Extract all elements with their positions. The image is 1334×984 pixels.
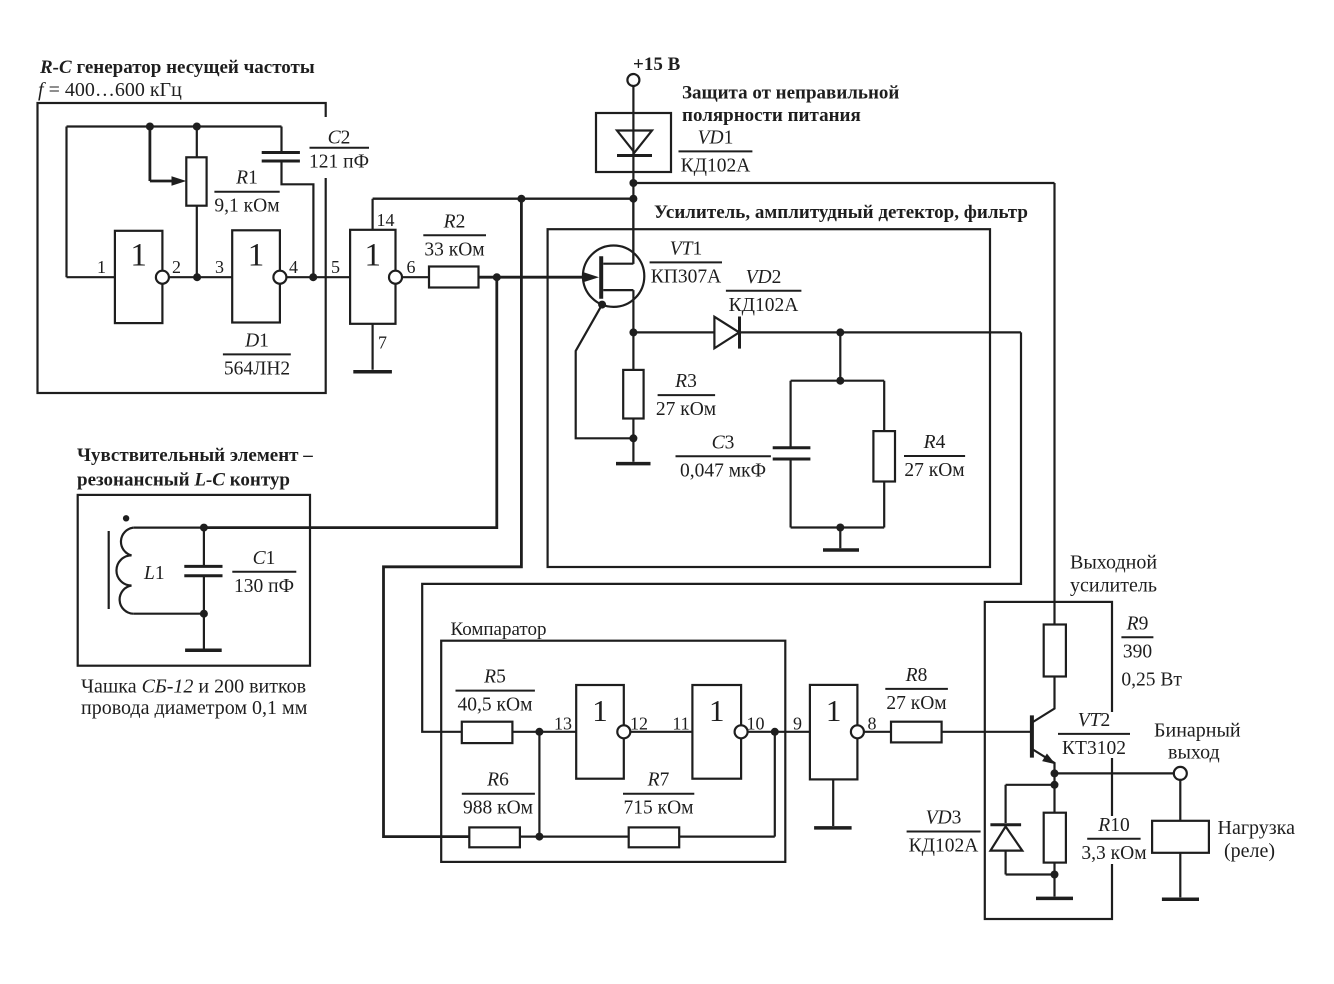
svg-text:R1: R1 xyxy=(235,168,258,189)
svg-text:полярности питания: полярности питания xyxy=(682,105,861,126)
svg-text:13: 13 xyxy=(554,714,572,734)
svg-text:715 кОм: 715 кОм xyxy=(623,798,693,819)
svg-text:Выходной: Выходной xyxy=(1070,552,1157,574)
svg-text:1: 1 xyxy=(826,693,842,728)
svg-text:R6: R6 xyxy=(486,770,509,791)
svg-text:988 кОм: 988 кОм xyxy=(463,798,533,819)
svg-text:27 кОм: 27 кОм xyxy=(656,399,716,420)
svg-text:Бинарный: Бинарный xyxy=(1154,720,1241,742)
svg-text:R4: R4 xyxy=(923,432,946,453)
svg-text:R3: R3 xyxy=(674,371,697,392)
svg-text:R10: R10 xyxy=(1097,815,1129,836)
svg-text:f = 400…600 кГц: f = 400…600 кГц xyxy=(38,79,182,101)
svg-text:33 кОм: 33 кОм xyxy=(424,239,484,260)
svg-text:C3: C3 xyxy=(712,432,735,453)
svg-text:Усилитель, амплитудный детекто: Усилитель, амплитудный детектор, фильтр xyxy=(654,202,1028,223)
svg-text:4: 4 xyxy=(289,257,298,277)
svg-text:9: 9 xyxy=(793,714,802,734)
svg-text:1: 1 xyxy=(248,238,265,274)
svg-text:R7: R7 xyxy=(647,770,670,791)
svg-text:27 кОм: 27 кОм xyxy=(904,460,964,481)
svg-text:R9: R9 xyxy=(1126,613,1149,634)
svg-text:(реле): (реле) xyxy=(1224,840,1275,862)
svg-text:11: 11 xyxy=(672,714,689,734)
svg-text:резонансный L-C контур: резонансный L-C контур xyxy=(77,470,290,491)
svg-text:Компаратор: Компаратор xyxy=(451,619,547,640)
svg-text:Нагрузка: Нагрузка xyxy=(1218,817,1296,839)
svg-text:КД102А: КД102А xyxy=(681,155,751,176)
svg-text:усилитель: усилитель xyxy=(1070,575,1157,597)
svg-text:Чашка СБ-12 и 200 витков: Чашка СБ-12 и 200 витков xyxy=(81,676,306,698)
svg-text:R-C генератор несущей частоты: R-C генератор несущей частоты xyxy=(39,57,315,78)
svg-text:КП307А: КП307А xyxy=(651,266,721,287)
svg-text:8: 8 xyxy=(868,714,877,734)
svg-text:0,25 Вт: 0,25 Вт xyxy=(1121,669,1182,690)
svg-text:VD1: VD1 xyxy=(698,127,734,148)
svg-text:выход: выход xyxy=(1168,742,1220,764)
svg-text:1: 1 xyxy=(130,238,147,274)
svg-text:0,047 мкФ: 0,047 мкФ xyxy=(680,460,766,481)
svg-text:6: 6 xyxy=(407,257,416,277)
svg-text:121 пФ: 121 пФ xyxy=(309,152,369,173)
svg-text:1: 1 xyxy=(97,257,106,277)
svg-text:R2: R2 xyxy=(443,211,466,232)
svg-text:1: 1 xyxy=(592,693,608,728)
svg-text:R8: R8 xyxy=(905,665,928,686)
svg-text:2: 2 xyxy=(172,257,181,277)
svg-text:14: 14 xyxy=(377,210,395,230)
svg-text:КД102А: КД102А xyxy=(909,836,979,857)
svg-text:40,5 кОм: 40,5 кОм xyxy=(458,695,533,716)
svg-text:9,1 кОм: 9,1 кОм xyxy=(214,196,279,217)
svg-text:Защита от неправильной: Защита от неправильной xyxy=(682,83,899,104)
svg-text:130 пФ: 130 пФ xyxy=(234,576,294,597)
svg-text:провода диаметром 0,1 мм: провода диаметром 0,1 мм xyxy=(81,697,308,719)
svg-text:Чувствительный элемент –: Чувствительный элемент – xyxy=(77,445,313,466)
svg-text:390: 390 xyxy=(1123,641,1152,662)
svg-text:C2: C2 xyxy=(328,128,351,149)
svg-text:1: 1 xyxy=(709,693,725,728)
svg-text:VD2: VD2 xyxy=(746,267,782,288)
svg-text:3,3 кОм: 3,3 кОм xyxy=(1081,843,1146,864)
svg-text:VT2: VT2 xyxy=(1078,710,1111,731)
svg-text:1: 1 xyxy=(365,238,382,274)
svg-text:+15 В: +15 В xyxy=(633,54,681,75)
svg-text:564ЛН2: 564ЛН2 xyxy=(224,358,290,379)
svg-text:L1: L1 xyxy=(143,563,165,584)
svg-text:3: 3 xyxy=(215,257,224,277)
svg-text:12: 12 xyxy=(630,714,648,734)
svg-text:7: 7 xyxy=(378,333,387,353)
svg-text:27 кОм: 27 кОм xyxy=(886,693,946,714)
svg-text:D1: D1 xyxy=(244,330,269,351)
svg-text:КТ3102: КТ3102 xyxy=(1062,738,1126,759)
svg-text:10: 10 xyxy=(747,714,765,734)
svg-text:C1: C1 xyxy=(253,548,276,569)
svg-text:КД102А: КД102А xyxy=(729,295,799,316)
svg-text:VT1: VT1 xyxy=(670,238,703,259)
svg-text:R5: R5 xyxy=(483,667,506,688)
svg-text:5: 5 xyxy=(331,257,340,277)
svg-text:VD3: VD3 xyxy=(926,808,962,829)
